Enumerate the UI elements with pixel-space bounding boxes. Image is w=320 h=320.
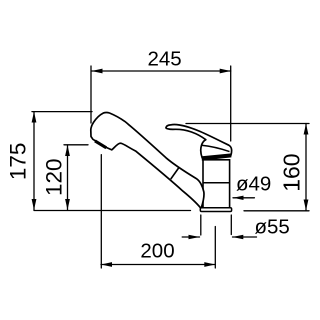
aerator outlet face — [95, 141, 106, 148]
cap band under handle — [202, 153, 232, 160]
arrowhead 245 right — [220, 69, 231, 74]
body section line — [203, 182, 230, 184]
arrowhead dia55 right — [232, 235, 243, 240]
svg-text:245: 245 — [147, 48, 181, 71]
dim line 245 — [92, 70, 231, 72]
extension line top of 160 — [186, 123, 309, 125]
leader shaft dia55 left — [182, 236, 199, 238]
svg-text:120: 120 — [42, 158, 67, 196]
svg-text:175: 175 — [5, 143, 30, 181]
dim line 200 — [101, 264, 215, 266]
arrowhead 200 right — [204, 262, 215, 267]
arrowhead 160 bottom — [304, 200, 309, 211]
arrowhead dia55 left — [189, 235, 200, 240]
extension line top of 120 — [64, 144, 88, 146]
arrowhead 175 top — [32, 112, 37, 123]
arrowhead 120 bottom — [65, 199, 70, 210]
center line below base — [214, 227, 216, 269]
leader shaft dia55 right — [233, 236, 257, 238]
extension line dia55 left — [200, 215, 202, 235]
extension line left of 200 — [100, 155, 102, 268]
arrowhead 200 left — [101, 262, 112, 267]
arrowhead 120 top — [65, 145, 70, 156]
arrowhead 160 top — [304, 124, 309, 135]
arrowhead 175 bottom — [32, 199, 37, 210]
mounting plane line right — [244, 210, 309, 212]
grip ring tick on wand — [171, 168, 179, 179]
spray head and pull-out spout — [91, 112, 204, 207]
dim line 175 — [33, 112, 35, 210]
extension line dia55 right — [230, 215, 232, 235]
dim line 160 — [305, 124, 307, 211]
extension line right of 245 — [230, 66, 232, 141]
arrowhead dia49 — [233, 196, 244, 200]
dim line 120 — [67, 145, 69, 210]
lever handle — [166, 124, 232, 158]
base flange — [200, 208, 231, 212]
svg-text:ø49: ø49 — [236, 173, 271, 196]
lever dome arc — [202, 145, 230, 151]
svg-text:160: 160 — [279, 153, 305, 191]
extension line top of 175 — [32, 111, 92, 113]
leader shaft dia49 — [233, 197, 254, 199]
svg-text:ø55: ø55 — [255, 216, 290, 239]
arrowhead 245 left — [92, 69, 103, 74]
mounting plane line left — [34, 210, 191, 212]
svg-text:200: 200 — [140, 239, 174, 262]
faucet body cylinder — [203, 160, 230, 208]
extension line left of 245 — [90, 66, 92, 123]
